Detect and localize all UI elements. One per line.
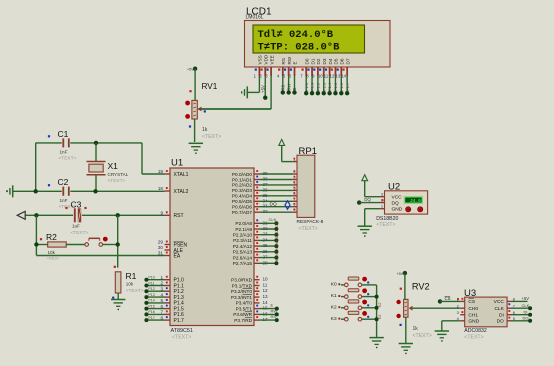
svg-text:3: 3 bbox=[457, 310, 459, 315]
svg-text:DI: DI bbox=[524, 310, 528, 315]
svg-text:D4: D4 bbox=[328, 58, 333, 64]
svg-text:P3.0/RXD: P3.0/RXD bbox=[231, 278, 252, 283]
svg-text:CH1: CH1 bbox=[468, 313, 478, 319]
svg-text:RV1: RV1 bbox=[202, 82, 218, 91]
svg-text:T≠TP: 028.0°B: T≠TP: 028.0°B bbox=[258, 42, 341, 54]
svg-text:P3.4/T0: P3.4/T0 bbox=[236, 301, 253, 306]
svg-text:12: 12 bbox=[330, 74, 335, 79]
svg-text:P3.6/WR: P3.6/WR bbox=[233, 312, 252, 317]
svg-text:DO: DO bbox=[275, 233, 279, 239]
svg-text:GND: GND bbox=[392, 207, 403, 213]
svg-text:C2: C2 bbox=[58, 177, 69, 187]
svg-text:CLK: CLK bbox=[269, 217, 277, 222]
svg-text:3: 3 bbox=[381, 192, 383, 197]
svg-text:P0.4/AD4: P0.4/AD4 bbox=[232, 194, 252, 199]
svg-text:RV2: RV2 bbox=[412, 282, 430, 292]
svg-text:14: 14 bbox=[341, 74, 346, 79]
svg-text:P13: P13 bbox=[148, 293, 154, 297]
svg-text:CS: CS bbox=[468, 299, 475, 305]
svg-text:K3: K3 bbox=[378, 315, 382, 319]
svg-text:<TEXT>: <TEXT> bbox=[172, 335, 191, 341]
svg-text:<TEXT>: <TEXT> bbox=[376, 222, 395, 228]
svg-text:RW: RW bbox=[287, 56, 292, 64]
svg-text:1k: 1k bbox=[202, 127, 208, 133]
svg-text:DI: DI bbox=[499, 313, 504, 319]
svg-text:12: 12 bbox=[263, 288, 269, 293]
svg-text:<TEXT>: <TEXT> bbox=[108, 178, 126, 184]
svg-text:VCC: VCC bbox=[494, 299, 505, 305]
svg-text:10: 10 bbox=[318, 74, 323, 79]
svg-text:10k: 10k bbox=[48, 250, 56, 255]
svg-text:CLK: CLK bbox=[494, 306, 504, 312]
svg-text:ADC0832: ADC0832 bbox=[464, 328, 487, 334]
svg-text:RS: RS bbox=[281, 58, 286, 64]
svg-text:P2.1/A9: P2.1/A9 bbox=[235, 227, 252, 232]
svg-text:DQ: DQ bbox=[392, 201, 399, 207]
svg-text:RESPACK-8: RESPACK-8 bbox=[297, 219, 324, 225]
svg-text:P2.0/A8: P2.0/A8 bbox=[235, 221, 252, 226]
svg-text:P1.5: P1.5 bbox=[333, 82, 338, 91]
svg-text:K1: K1 bbox=[331, 293, 337, 299]
svg-text:13: 13 bbox=[263, 294, 269, 299]
svg-text:VCC: VCC bbox=[392, 195, 403, 201]
svg-text:P0.2/AD2: P0.2/AD2 bbox=[232, 183, 252, 188]
svg-text:VSS: VSS bbox=[258, 55, 263, 64]
svg-text:D6: D6 bbox=[340, 58, 345, 64]
svg-text:<TEXT>: <TEXT> bbox=[299, 226, 318, 232]
svg-text:CH0: CH0 bbox=[468, 306, 478, 312]
svg-text:P1.3: P1.3 bbox=[321, 82, 326, 91]
svg-text:Tdl≠ 024.0°B: Tdl≠ 024.0°B bbox=[258, 29, 334, 41]
svg-text:P1.7: P1.7 bbox=[174, 318, 185, 324]
svg-text:DQ: DQ bbox=[364, 197, 371, 202]
svg-text:P2.5/A13: P2.5/A13 bbox=[233, 250, 253, 255]
svg-text:R1: R1 bbox=[126, 271, 137, 281]
svg-text:P2.2/A10: P2.2/A10 bbox=[233, 233, 253, 238]
svg-text:P15: P15 bbox=[148, 304, 154, 308]
svg-text:P0.0/AD0: P0.0/AD0 bbox=[232, 172, 252, 177]
svg-text:CRYSTAL: CRYSTAL bbox=[108, 172, 129, 177]
svg-text:P1.2: P1.2 bbox=[316, 82, 321, 91]
svg-text:<TEXT>: <TEXT> bbox=[413, 333, 432, 339]
svg-text:14: 14 bbox=[263, 300, 269, 305]
svg-text:D2: D2 bbox=[316, 58, 321, 64]
svg-text:P1.1: P1.1 bbox=[310, 82, 315, 91]
svg-text:XTAL1: XTAL1 bbox=[174, 172, 189, 178]
svg-text:R2: R2 bbox=[46, 232, 57, 242]
svg-text:K1: K1 bbox=[275, 245, 279, 249]
svg-text:K0: K0 bbox=[275, 240, 279, 244]
svg-text:LM016L: LM016L bbox=[246, 14, 264, 20]
svg-text:RS: RS bbox=[271, 314, 277, 319]
svg-text:GND: GND bbox=[468, 319, 479, 325]
svg-text:E: E bbox=[292, 88, 297, 91]
svg-text:+5V: +5V bbox=[522, 296, 530, 301]
svg-text:31: 31 bbox=[158, 251, 164, 256]
svg-text:VDD: VDD bbox=[263, 54, 268, 64]
svg-text:D3: D3 bbox=[322, 58, 327, 64]
svg-text:DS18B20: DS18B20 bbox=[376, 216, 398, 222]
svg-text:RW: RW bbox=[286, 84, 291, 91]
svg-text:P2.6/A14: P2.6/A14 bbox=[233, 255, 253, 260]
svg-text:19: 19 bbox=[158, 169, 164, 174]
svg-text:K2: K2 bbox=[275, 251, 279, 255]
svg-text:+5V: +5V bbox=[187, 68, 194, 72]
svg-text:CS: CS bbox=[275, 221, 279, 227]
svg-text:10k: 10k bbox=[126, 282, 134, 287]
svg-text:P2.7/A15: P2.7/A15 bbox=[233, 261, 253, 266]
svg-text:AT89C51: AT89C51 bbox=[171, 328, 193, 334]
svg-text:K3: K3 bbox=[331, 316, 337, 322]
svg-text:D5: D5 bbox=[334, 58, 339, 64]
svg-text:RST: RST bbox=[174, 213, 184, 219]
svg-text:29: 29 bbox=[158, 240, 164, 245]
svg-text:24.0: 24.0 bbox=[410, 199, 421, 204]
svg-text:<TEXT>: <TEXT> bbox=[59, 156, 77, 162]
svg-text:K3: K3 bbox=[275, 257, 279, 261]
svg-text:P0.6/AD6: P0.6/AD6 bbox=[232, 205, 252, 210]
svg-text:DO: DO bbox=[523, 316, 529, 321]
svg-text:D0: D0 bbox=[304, 58, 309, 64]
svg-text:2: 2 bbox=[457, 303, 459, 308]
svg-text:<TEXT>: <TEXT> bbox=[126, 288, 144, 294]
svg-text:P1.4: P1.4 bbox=[327, 82, 332, 91]
svg-text:<TEXT>: <TEXT> bbox=[202, 134, 221, 140]
svg-text:18: 18 bbox=[158, 186, 164, 191]
svg-text:CLK: CLK bbox=[522, 303, 530, 308]
svg-text:E: E bbox=[293, 61, 298, 64]
svg-text:1uF: 1uF bbox=[72, 224, 80, 229]
svg-text:<TEXT>: <TEXT> bbox=[71, 230, 89, 236]
svg-text:30: 30 bbox=[158, 245, 164, 250]
svg-text:CS: CS bbox=[445, 296, 451, 301]
svg-text:C1: C1 bbox=[58, 129, 69, 139]
svg-text:13: 13 bbox=[336, 74, 341, 79]
svg-text:K2: K2 bbox=[378, 303, 382, 307]
svg-text:VEE: VEE bbox=[269, 55, 274, 64]
svg-text:P2.4/A12: P2.4/A12 bbox=[233, 244, 253, 249]
svg-text:+5V: +5V bbox=[397, 272, 404, 276]
svg-text:U1: U1 bbox=[171, 158, 183, 169]
svg-text:P1.0: P1.0 bbox=[304, 82, 309, 91]
svg-text:P0.5/AD5: P0.5/AD5 bbox=[232, 199, 252, 204]
svg-text:1nF: 1nF bbox=[60, 150, 68, 155]
svg-text:<TEXT>: <TEXT> bbox=[464, 335, 483, 341]
svg-text:XTAL2: XTAL2 bbox=[174, 189, 189, 195]
svg-text:P17: P17 bbox=[148, 316, 154, 320]
svg-text:D7: D7 bbox=[345, 58, 350, 64]
svg-text:RW: RW bbox=[271, 308, 278, 313]
svg-text:DQ: DQ bbox=[270, 201, 277, 207]
svg-text:P3.3/INT1: P3.3/INT1 bbox=[231, 295, 252, 300]
svg-text:P1.6: P1.6 bbox=[339, 82, 344, 91]
svg-text:P0.3/AD3: P0.3/AD3 bbox=[232, 188, 252, 193]
svg-text:RS: RS bbox=[280, 84, 285, 90]
svg-text:P3.1/TXD: P3.1/TXD bbox=[232, 283, 253, 288]
svg-text:P14: P14 bbox=[148, 299, 154, 303]
svg-text:EA: EA bbox=[174, 253, 181, 259]
svg-text:<RES>: <RES> bbox=[47, 256, 61, 261]
svg-text:P10: P10 bbox=[148, 276, 154, 280]
svg-text:P11: P11 bbox=[148, 281, 154, 285]
svg-text:DO: DO bbox=[497, 319, 504, 325]
svg-text:P3.2/INT0: P3.2/INT0 bbox=[231, 289, 252, 294]
svg-text:DI: DI bbox=[275, 229, 279, 233]
svg-text:P2.3/A11: P2.3/A11 bbox=[233, 238, 252, 243]
svg-text:9: 9 bbox=[160, 211, 163, 216]
svg-text:10: 10 bbox=[263, 277, 269, 282]
svg-text:11: 11 bbox=[324, 74, 329, 79]
svg-text:+5V: +5V bbox=[260, 85, 265, 93]
svg-text:C3: C3 bbox=[71, 200, 82, 210]
svg-text:X1: X1 bbox=[108, 161, 119, 171]
svg-text:1: 1 bbox=[381, 204, 383, 209]
svg-text:1nF: 1nF bbox=[60, 198, 68, 203]
svg-text:P3.7/RD: P3.7/RD bbox=[234, 318, 252, 323]
svg-text:P1.7: P1.7 bbox=[345, 82, 350, 91]
svg-text:P0.1/AD1: P0.1/AD1 bbox=[232, 177, 252, 182]
svg-text:P16: P16 bbox=[148, 310, 154, 314]
svg-text:K2: K2 bbox=[331, 304, 337, 310]
svg-text:11: 11 bbox=[263, 283, 268, 288]
svg-text:P3.5/T1: P3.5/T1 bbox=[236, 306, 253, 311]
svg-text:K0: K0 bbox=[331, 282, 337, 288]
svg-text:D1: D1 bbox=[310, 58, 315, 64]
svg-text:P0.7/AD7: P0.7/AD7 bbox=[232, 210, 252, 215]
svg-text:P12: P12 bbox=[148, 287, 154, 291]
svg-text:1k: 1k bbox=[413, 326, 419, 332]
svg-text:E: E bbox=[271, 303, 274, 308]
